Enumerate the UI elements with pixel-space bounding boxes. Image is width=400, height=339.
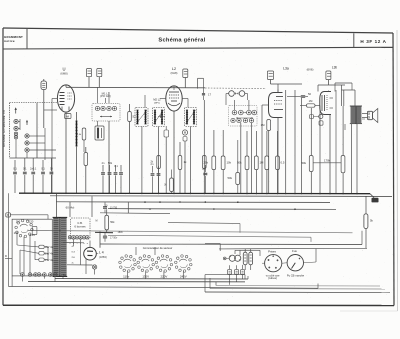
gang trimmer G8 <box>249 118 253 122</box>
wire R14-R15 link <box>313 159 341 163</box>
osc coil box <box>95 126 104 140</box>
IF transformer T2 <box>153 108 165 127</box>
label mid <box>105 204 108 208</box>
cap C bias2 <box>95 231 123 242</box>
cap C row1d <box>41 160 45 193</box>
resistor R16 <box>364 196 374 248</box>
wafer switch W3 <box>155 255 173 273</box>
resistor R6 <box>300 99 320 107</box>
cap C coupling <box>287 92 311 97</box>
wire verticals mid <box>142 90 357 193</box>
trimmer CV2 <box>97 69 102 88</box>
wire B lead <box>10 215 48 219</box>
wire L3a grid drop <box>261 105 263 193</box>
terminal B3 <box>25 148 29 152</box>
trimmer CV4 <box>267 71 273 84</box>
wire antenna box <box>10 119 57 158</box>
resistor R15 <box>341 156 345 173</box>
antenna fuse pair <box>14 132 17 139</box>
terminal label <box>59 273 67 277</box>
jack symbols <box>310 114 324 125</box>
wire bottom right <box>205 244 316 264</box>
resistor R12 <box>276 156 285 170</box>
wire tube U top <box>65 85 67 87</box>
resistor R9 <box>237 156 249 170</box>
output transformer <box>350 106 362 124</box>
label M1 L1 <box>100 92 111 99</box>
wire hline7 <box>100 231 362 245</box>
wire mains h1 <box>55 276 248 279</box>
terminal B box <box>6 213 11 217</box>
resistor R13 <box>227 140 239 193</box>
tuning gang box <box>229 106 258 127</box>
wire transformer bottoms <box>12 276 63 287</box>
header right cell <box>354 33 387 47</box>
tube U <box>57 85 74 112</box>
antenna label strip <box>3 110 6 147</box>
wire hline2 <box>50 195 392 198</box>
IF transformer T3 <box>185 108 197 127</box>
antenna terminal A1 <box>14 119 18 123</box>
header left cell text <box>4 35 23 43</box>
cap C row1e <box>50 159 54 194</box>
resistor R21 <box>164 170 173 194</box>
wire wafer drops <box>128 247 184 279</box>
wire top rail A <box>66 86 205 89</box>
electrolytic C1 <box>243 249 247 270</box>
wire speaker <box>342 90 368 193</box>
tube L3b leads <box>328 91 330 194</box>
grid cap U <box>57 78 58 82</box>
gang trimmer G6 <box>237 118 241 122</box>
gang trimmer G2 <box>239 110 244 115</box>
terminal small <box>223 257 226 260</box>
cap C row2c <box>114 164 119 193</box>
resistor R1 <box>84 147 88 193</box>
gang trimmer G1 <box>232 110 237 115</box>
electrolytic C2 <box>249 249 253 270</box>
tube L4 <box>84 247 97 260</box>
antenna arrow <box>15 107 17 113</box>
wafer labels <box>123 274 187 278</box>
power transformer <box>53 217 68 276</box>
connector terminals <box>68 236 89 246</box>
RF coil <box>41 81 47 90</box>
resistor R14 <box>301 156 313 172</box>
wire gang2 leads <box>235 100 252 193</box>
chassis blob <box>370 194 379 203</box>
terminal strip <box>21 273 57 277</box>
gang trimmer G4 <box>252 110 257 115</box>
tube U label <box>60 66 67 75</box>
wire hline3 <box>56 201 330 204</box>
wire gang1 leads <box>98 88 110 194</box>
tube L2 leads <box>160 99 188 194</box>
wire right edge drop <box>0 0 1 1</box>
wafer switch W2 <box>137 255 155 273</box>
tube L3a label <box>283 66 289 70</box>
padder trimmer P2 <box>101 106 105 110</box>
ground bus <box>19 192 370 195</box>
cap C mid3 <box>202 165 207 193</box>
cap C row2a <box>101 161 105 193</box>
wafer switch W4 <box>175 255 193 273</box>
control left <box>265 255 282 272</box>
resistor R11 <box>265 156 269 170</box>
fuse F2 <box>39 252 54 256</box>
cap C mid2 <box>157 166 161 193</box>
wire hline6 <box>108 235 311 242</box>
wire mains h2 <box>28 281 245 283</box>
wafer switch W1 <box>119 255 137 273</box>
resistor R20 main <box>105 209 115 232</box>
cap block C4 <box>235 265 239 282</box>
wire coil leads <box>44 79 57 160</box>
padder arrows <box>100 116 112 118</box>
resistor R4 <box>178 142 187 193</box>
cap C row2b <box>108 161 113 193</box>
control right labels <box>287 249 305 277</box>
tube L3b <box>320 92 333 115</box>
padder trimmer P4 <box>112 106 116 110</box>
shield box <box>10 103 58 158</box>
mains selector box <box>12 219 52 276</box>
antenna terminal A2 <box>14 126 18 130</box>
gang bowtie top <box>244 112 247 114</box>
gang trimmer G7 <box>243 118 247 122</box>
label 60 <box>66 205 75 209</box>
cap block C3 <box>228 265 232 285</box>
cap C row1c <box>30 158 37 193</box>
wire hline4 <box>108 208 336 211</box>
label 4A box <box>65 114 72 119</box>
wire selector internal <box>17 234 48 274</box>
cap C row1a <box>13 160 17 193</box>
trimmer CV5 <box>318 71 345 92</box>
fuse F1 <box>39 245 54 249</box>
resistor R7 screen <box>203 156 215 170</box>
wire L4 leads <box>63 241 98 275</box>
jack J1 <box>182 130 187 193</box>
cap C row2d <box>119 165 123 193</box>
wire right loop <box>219 247 367 250</box>
bandswitch contacts <box>226 91 248 105</box>
choke L osc <box>75 112 77 193</box>
padder trimmer P1 <box>95 106 99 110</box>
tube L3a leads <box>262 105 278 193</box>
padder trimmer P3 <box>107 106 111 110</box>
resistor R23 <box>203 156 207 169</box>
tube L3b label <box>307 66 338 72</box>
resistor R5 grid <box>261 120 271 194</box>
terminal bowties <box>31 273 54 275</box>
tube L2 label <box>171 67 178 75</box>
resistor R10 <box>254 156 264 170</box>
IF transformer T1 <box>135 108 148 127</box>
padder box 1 <box>92 104 120 122</box>
wire hline6b <box>168 223 240 256</box>
tube L2 <box>166 86 182 111</box>
wire hline5 <box>28 231 353 233</box>
gang arrows <box>236 117 253 119</box>
label M2 L2 <box>153 98 161 105</box>
cap C bias <box>103 202 118 213</box>
tube L4 label <box>99 251 107 259</box>
resistor R2 <box>77 128 86 152</box>
selector inner box <box>32 226 37 234</box>
transformer tap labels <box>72 246 76 265</box>
gang trimmer G5 <box>231 118 235 122</box>
resistor R3 <box>128 104 136 193</box>
switch S1 <box>164 126 169 193</box>
fuse holder pair <box>229 250 241 261</box>
terminal B1 <box>25 134 29 138</box>
cap C mid1 <box>151 162 155 193</box>
gang trimmer G3 <box>247 110 252 115</box>
voltage selector <box>14 219 36 237</box>
label commutateur <box>143 246 173 250</box>
terminal B2 <box>25 141 29 145</box>
terminal B arrow <box>26 120 28 125</box>
wire nested right <box>205 275 390 293</box>
junction dots <box>65 193 358 211</box>
tube L3a <box>269 90 284 118</box>
fuse F3 <box>39 258 54 262</box>
title Schéma général <box>158 37 205 43</box>
tube U cathode lead <box>52 99 66 194</box>
pilot lamp <box>92 265 96 269</box>
trimmer CV3 <box>183 69 188 88</box>
secondary connector box <box>71 218 91 239</box>
label 17pF <box>202 78 212 100</box>
control right <box>287 255 303 271</box>
trimmer CV1 <box>87 69 92 88</box>
control left labels <box>266 249 280 280</box>
header left cell divider <box>26 28 28 49</box>
resistor R22 <box>150 156 160 169</box>
wire top rail B <box>198 78 302 92</box>
wire line213 <box>57 194 170 265</box>
resistor R8 <box>221 156 231 170</box>
label B plus <box>96 220 98 223</box>
cap block C5 <box>241 265 245 279</box>
speaker <box>368 109 378 123</box>
wire bottom loop <box>5 193 318 288</box>
cap T2 link <box>158 116 165 117</box>
cap C row1b <box>23 158 27 193</box>
wire L3b top loop <box>335 83 352 92</box>
